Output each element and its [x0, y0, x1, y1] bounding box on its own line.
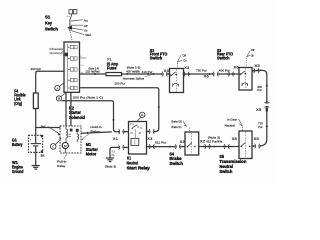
svg-text:X3: X3	[184, 66, 189, 70]
svg-text:Off: Off	[84, 24, 88, 28]
svg-text:S1: S1	[45, 15, 51, 20]
svg-text:In Gear: In Gear	[227, 118, 237, 122]
svg-text:On: On	[251, 54, 255, 58]
svg-text:X1: X1	[113, 137, 118, 141]
svg-text:Key: Key	[45, 21, 52, 26]
svg-text:X5: X5	[255, 64, 260, 68]
svg-text:Battery: Battery	[12, 142, 23, 147]
svg-text:X2: X2	[200, 140, 205, 144]
svg-text:410 Pur: 410 Pur	[142, 70, 153, 74]
svg-text:Motor: Motor	[86, 152, 97, 157]
svg-text:200 Pur (Note 1-C): 200 Pur (Note 1-C)	[73, 96, 103, 100]
svg-text:X2: X2	[180, 140, 185, 144]
svg-text:G: G	[80, 56, 82, 58]
svg-text:Pur: Pur	[257, 88, 261, 92]
svg-text:X9: X9	[254, 137, 259, 141]
svg-text:Ground: Ground	[12, 169, 24, 174]
svg-text:Off: Off	[251, 48, 255, 52]
svg-text:Start Relay: Start Relay	[127, 166, 151, 171]
svg-text:611 Pur: 611 Pur	[155, 141, 166, 145]
svg-text:Brake On: Brake On	[172, 125, 182, 129]
svg-text:Switch: Switch	[150, 55, 163, 60]
svg-text:400 Yel/Blk: 400 Yel/Blk	[126, 70, 140, 74]
svg-text:Blk: Blk	[41, 154, 45, 158]
svg-text:X6: X6	[234, 65, 239, 69]
svg-text:Hold-in: Hold-in	[90, 125, 102, 129]
svg-text:200 Pur: 200 Pur	[115, 82, 126, 86]
svg-text:Harness Splice: Harness Splice	[123, 76, 145, 80]
svg-text:Switch: Switch	[45, 27, 58, 32]
svg-text:87A: 87A	[130, 123, 135, 126]
svg-text:Switch: Switch	[219, 169, 232, 174]
svg-text:+: +	[29, 137, 31, 141]
svg-text:Chassis: Chassis	[49, 47, 63, 51]
svg-text:615 Pur/Wht: 615 Pur/Wht	[206, 140, 222, 144]
svg-text:Acc: Acc	[84, 19, 89, 23]
svg-text:Switch: Switch	[169, 161, 183, 166]
svg-text:202 Yel/Red: 202 Yel/Red	[86, 70, 100, 74]
svg-text:Pur: Pur	[258, 125, 262, 129]
svg-text:Pull-in: Pull-in	[57, 160, 67, 164]
svg-text:X3: X3	[147, 137, 152, 141]
svg-text:Off: Off	[182, 54, 186, 58]
svg-text:X3: X3	[164, 69, 169, 73]
svg-text:Start: Start	[85, 33, 91, 37]
svg-text:Red: Red	[41, 125, 46, 129]
svg-text:750 Pur: 750 Pur	[196, 68, 206, 72]
svg-text:Fuse: Fuse	[107, 66, 117, 71]
svg-text:Switch: Switch	[217, 55, 230, 60]
svg-text:200 Grn: 200 Grn	[31, 67, 42, 71]
svg-text:X5: X5	[256, 108, 261, 112]
svg-text:Relay: Relay	[57, 164, 66, 168]
svg-text:Brake Off: Brake Off	[172, 120, 182, 124]
svg-text:(Note 3): (Note 3)	[105, 165, 116, 169]
svg-text:Ground: Ground	[49, 51, 63, 55]
svg-text:Neutral: Neutral	[225, 124, 236, 128]
svg-text:On: On	[183, 59, 187, 63]
svg-text:(Org): (Org)	[14, 101, 22, 106]
svg-text:X8: X8	[232, 137, 237, 141]
svg-text:X6: X6	[204, 75, 209, 79]
svg-text:On: On	[84, 28, 88, 32]
